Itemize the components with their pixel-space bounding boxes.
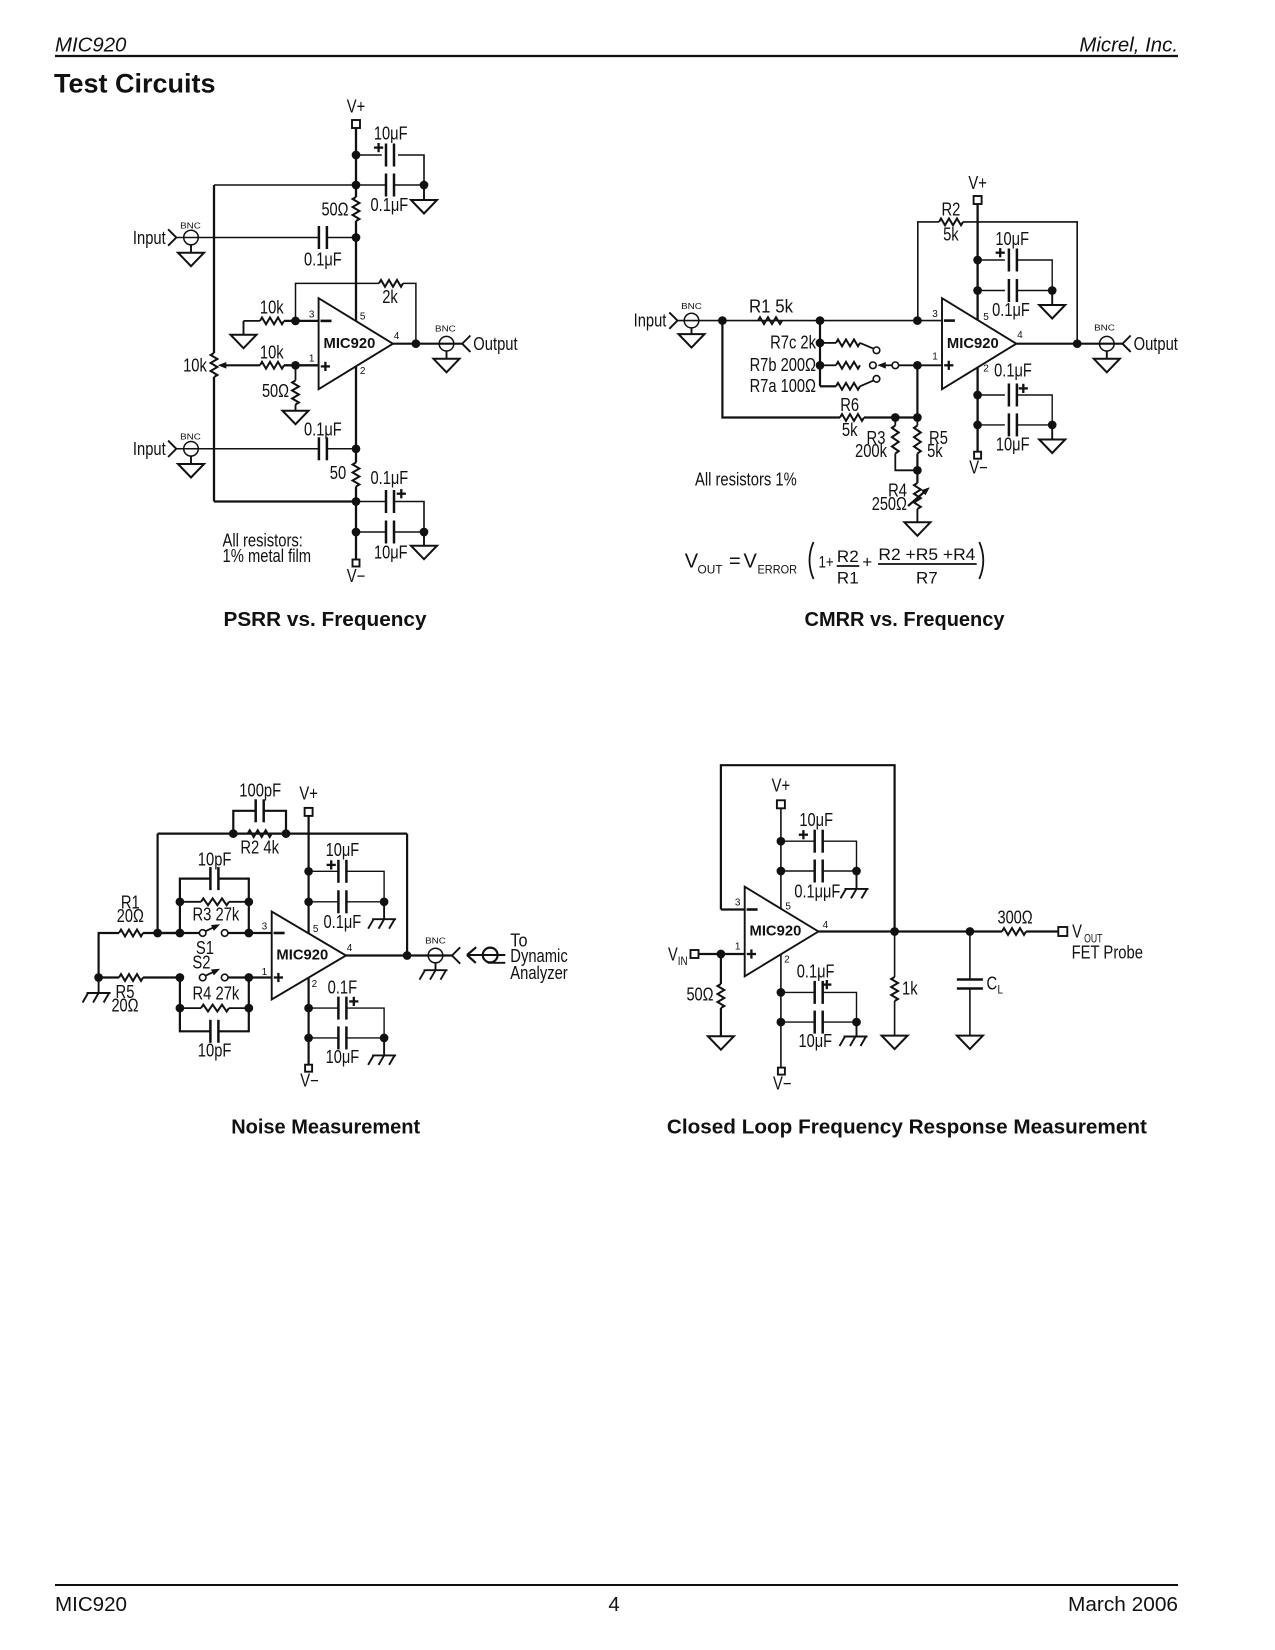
resistor 50 Ohm (V+ rail): [321, 197, 359, 221]
wire V+ rail: [976, 204, 978, 321]
V+ supply terminal: [347, 97, 366, 129]
capacitor 10uF (V- bypass): [996, 413, 1030, 454]
capacitor 10uF (V- bypass): [799, 1011, 833, 1052]
svg-text:C: C: [987, 974, 998, 994]
wire cap to ground node: [394, 184, 424, 186]
svg-text:All resistors 1%: All resistors 1%: [695, 469, 797, 489]
V- supply terminal: [773, 1068, 792, 1094]
svg-text:0.1F: 0.1F: [328, 977, 358, 997]
svg-text:2: 2: [360, 366, 366, 377]
junction: [304, 1034, 313, 1043]
resistor R3 27k: [176, 897, 254, 933]
svg-text:1% metal film: 1% metal film: [223, 546, 312, 566]
capacitor 10uF (V+ bypass, polarized): [799, 810, 833, 853]
svg-text:BNC: BNC: [180, 220, 201, 230]
svg-text:4: 4: [1017, 330, 1023, 341]
svg-text:BNC: BNC: [681, 301, 702, 311]
svg-text:2k: 2k: [382, 287, 398, 307]
wire feedback up: [296, 283, 380, 321]
junction: [352, 444, 361, 453]
junction: [176, 929, 185, 938]
wire output: [346, 954, 452, 956]
svg-text:MIC920: MIC920: [276, 947, 328, 964]
svg-text:4: 4: [823, 920, 829, 931]
junction: [380, 897, 389, 906]
wire: [284, 364, 319, 366]
wire: [346, 901, 384, 903]
svg-text:R1: R1: [837, 568, 859, 587]
svg-text:5: 5: [360, 312, 366, 323]
resistor R7c 2k: [770, 332, 860, 352]
junction: [891, 413, 900, 422]
capacitor 0.1uF (V+ bypass): [324, 890, 362, 932]
wire: [1017, 424, 1052, 426]
resistor R1 20 Ohm: [117, 892, 144, 936]
op-amp U4 MIC920 (closed loop): [745, 887, 819, 977]
junction: [244, 973, 253, 982]
svg-text:5k: 5k: [842, 420, 858, 440]
switch S1: [196, 924, 228, 958]
svg-text:4: 4: [394, 331, 400, 342]
svg-text:OUT: OUT: [698, 563, 724, 577]
junction: [913, 316, 922, 325]
wire: [1017, 395, 1052, 425]
V- supply terminal: [347, 560, 366, 587]
svg-text:Input: Input: [634, 311, 667, 331]
svg-text:10pF: 10pF: [198, 1040, 232, 1060]
junction: [94, 973, 103, 982]
svg-text:10pF: 10pF: [198, 850, 232, 870]
wire: [228, 976, 272, 978]
svg-text:1k: 1k: [902, 979, 918, 999]
capacitor CL (load): [957, 932, 1003, 997]
wire: [284, 320, 319, 322]
svg-text:3: 3: [309, 310, 315, 321]
svg-text:1+: 1+: [819, 552, 834, 571]
wire pin2 rail: [780, 954, 782, 1067]
svg-text:2: 2: [312, 979, 318, 990]
junction: [282, 829, 291, 838]
junction: [304, 867, 313, 876]
ground (pin3 10k): [231, 321, 257, 348]
wire: [823, 1021, 857, 1023]
junction: [1048, 286, 1057, 295]
resistor R5 5k: [914, 418, 948, 462]
wire output: [818, 930, 1002, 932]
wire rail to pin5: [355, 221, 357, 321]
wire 0.1uF row: [978, 290, 1005, 292]
ground: [1039, 425, 1065, 453]
junction: [352, 181, 361, 190]
wire pin2 rail: [355, 366, 357, 449]
svg-text:Output: Output: [473, 334, 517, 354]
junction: [777, 1018, 786, 1027]
junction: [153, 929, 162, 938]
svg-text:R2 4k: R2 4k: [240, 837, 279, 857]
wire: [823, 841, 857, 871]
wire rail: [355, 502, 357, 560]
ground: [841, 871, 869, 898]
svg-text:100pF: 100pF: [239, 780, 281, 800]
junction: [352, 528, 361, 537]
switch wiper arrow: [877, 362, 898, 369]
junction: [890, 927, 899, 936]
svg-text:5k: 5k: [943, 224, 959, 244]
wire output: [1016, 343, 1122, 345]
BNC connector input 1: [168, 220, 201, 245]
V+ supply terminal: [772, 776, 791, 809]
svg-text:1: 1: [735, 942, 741, 953]
junction: [852, 1018, 861, 1027]
wire feedback top: [158, 832, 408, 834]
svg-text:R1 5k: R1 5k: [749, 297, 794, 317]
capacitor 10uF (V- bypass): [326, 1026, 360, 1067]
svg-text:10μF: 10μF: [326, 840, 360, 860]
svg-text:V+: V+: [968, 173, 987, 193]
wire cap to rail: [327, 237, 356, 239]
svg-text:MIC920: MIC920: [750, 923, 802, 940]
svg-text:5: 5: [785, 901, 791, 912]
wire wiper to pin1: [899, 364, 942, 366]
op-amp U2 MIC920 (CMRR): [942, 298, 1016, 389]
svg-text:R7: R7: [916, 568, 938, 587]
wire: [346, 871, 384, 902]
ground: [1039, 291, 1065, 319]
svg-text:V+: V+: [347, 97, 366, 117]
wire 10uF row: [781, 840, 815, 842]
svg-text:MIC920: MIC920: [55, 1594, 127, 1616]
junction: [352, 233, 361, 242]
junction: [973, 256, 982, 265]
svg-text:V+: V+: [772, 776, 791, 796]
svg-text:50: 50: [330, 463, 346, 483]
wire: [158, 932, 200, 934]
svg-text:20Ω: 20Ω: [117, 906, 144, 926]
svg-text:0.1μF: 0.1μF: [324, 912, 362, 932]
svg-text:V−: V−: [773, 1074, 792, 1094]
wire 10uF row: [781, 1021, 815, 1023]
svg-text:10μF: 10μF: [326, 1047, 360, 1067]
svg-text:R7a 100Ω: R7a 100Ω: [750, 376, 816, 396]
svg-text:R2: R2: [941, 199, 960, 219]
wire: [823, 870, 857, 872]
wire to 0.1uF: [356, 184, 386, 186]
svg-text:3: 3: [735, 898, 741, 909]
potentiometer 10k: [183, 353, 217, 377]
resistor 2k (feedback): [379, 280, 403, 307]
junction: [1048, 421, 1057, 430]
wire: [355, 487, 357, 502]
wire left rail top segment: [214, 184, 356, 186]
svg-text:2: 2: [983, 363, 989, 374]
wire V+ rail: [780, 808, 782, 909]
svg-text:5: 5: [983, 312, 989, 323]
wire 0.1uF row: [309, 901, 339, 903]
junction: [304, 1004, 313, 1013]
svg-text:0.1μF: 0.1μF: [797, 961, 835, 981]
resistor 50 Ohm (pin1 to gnd): [262, 365, 299, 404]
svg-text:Closed Loop Frequency Response: Closed Loop Frequency Response Measureme…: [667, 1116, 1147, 1138]
capacitor 0.1uF (V+ bypass): [371, 174, 409, 216]
svg-text:50Ω: 50Ω: [321, 200, 348, 220]
wire 10uF row: [356, 154, 382, 156]
svg-text:0.1μF: 0.1μF: [304, 419, 342, 439]
svg-text:3: 3: [932, 309, 938, 320]
junction: [718, 316, 727, 325]
ground: [957, 988, 983, 1049]
wire pin2 rail: [308, 978, 310, 1065]
probe cable to analyzer: [467, 947, 505, 963]
wire feedback left down: [157, 834, 159, 933]
capacitor 0.1F (V- bypass, polarized): [328, 977, 359, 1019]
wire: [394, 531, 424, 533]
svg-text:4: 4: [608, 1594, 619, 1616]
junction: [352, 497, 361, 506]
wire 10uF row: [978, 259, 1005, 261]
junction: [966, 927, 975, 936]
svg-text:CMRR vs. Frequency: CMRR vs. Frequency: [805, 609, 1006, 631]
resistor R2 4k (feedback): [240, 830, 279, 857]
wire output: [393, 343, 462, 345]
capacitor 10uF (V+ bypass, polarized): [326, 840, 360, 883]
svg-text:R4 27k: R4 27k: [193, 984, 241, 1004]
junction: [973, 286, 982, 295]
wire feedback to output: [963, 222, 1077, 344]
junction: [973, 421, 982, 430]
wire pin1 down: [916, 365, 918, 417]
svg-text:10μF: 10μF: [799, 1031, 833, 1051]
wire V+ rail upper: [355, 128, 357, 197]
wire: [864, 416, 917, 418]
svg-text:10μF: 10μF: [374, 542, 408, 562]
wire input down to R6: [722, 321, 840, 418]
svg-text:1: 1: [262, 967, 268, 978]
switch throw contact R7a: [860, 376, 880, 387]
wire feedback right down: [406, 834, 408, 956]
svg-text:0.1μF: 0.1μF: [304, 249, 342, 269]
svg-text:4: 4: [347, 943, 353, 954]
wire: [916, 454, 918, 484]
wire: [143, 976, 180, 978]
svg-text:Output: Output: [1134, 334, 1178, 354]
ground: [708, 1008, 734, 1050]
wire Vin: [699, 953, 745, 955]
svg-text:10μF: 10μF: [799, 810, 833, 830]
wire pin3: [721, 908, 745, 910]
header rule: [55, 55, 1178, 57]
junction: [304, 897, 313, 906]
resistor 50 Ohm (input term): [686, 954, 724, 1008]
wire bottom-left return: [214, 500, 356, 502]
svg-text:10k: 10k: [260, 297, 285, 317]
svg-text:PSRR vs. Frequency: PSRR vs. Frequency: [224, 609, 428, 631]
junction: [816, 361, 825, 370]
svg-text:+: +: [862, 552, 872, 571]
ground: [411, 185, 437, 214]
svg-text:50Ω: 50Ω: [262, 381, 289, 401]
svg-text:MIC920: MIC920: [324, 335, 376, 352]
resistor R5 20 Ohm: [111, 974, 143, 1016]
capacitor 10uF (V+ bypass, polarized): [995, 229, 1029, 271]
capacitor 0.1uF (V- bypass, polarized): [371, 468, 409, 513]
wire: [1017, 290, 1052, 292]
svg-text:FET Probe: FET Probe: [1072, 942, 1143, 962]
wire: [244, 320, 261, 322]
svg-text:0.1μF: 0.1μF: [371, 468, 409, 488]
wire cap to corner: [398, 155, 424, 185]
wire R3 bottom elbow: [895, 454, 917, 471]
svg-text:R2: R2: [837, 547, 859, 566]
junction: [913, 413, 922, 422]
svg-text:3: 3: [262, 922, 268, 933]
wire left rail lower: [213, 377, 215, 502]
ground: [283, 405, 309, 425]
switch pole contact R7b: [870, 362, 877, 369]
ground: [882, 1001, 908, 1049]
junction: [412, 339, 421, 348]
svg-text:1: 1: [932, 351, 938, 362]
junction: [717, 950, 726, 959]
svg-text:10μF: 10μF: [995, 229, 1029, 249]
svg-text:Micrel, Inc.: Micrel, Inc.: [1079, 34, 1178, 56]
capacitor 0.1uF (input 1 coupling): [304, 226, 342, 269]
resistor R2 5k (feedback): [918, 199, 963, 321]
resistor R7a 100 Ohm: [750, 376, 860, 396]
svg-text:MIC920: MIC920: [55, 34, 127, 56]
junction: [403, 951, 412, 960]
junction: [291, 361, 300, 370]
junction: [352, 151, 361, 160]
junction: [229, 829, 238, 838]
capacitor 10uF (V- bypass): [374, 521, 408, 563]
svg-text:10μF: 10μF: [996, 434, 1030, 454]
svg-text:10μF: 10μF: [374, 124, 408, 144]
BNC connector output: [425, 935, 460, 963]
junction: [291, 317, 300, 326]
switch throw contact R7c: [860, 343, 880, 354]
capacitor 0.1uF (V- bypass, polarized): [797, 961, 835, 1004]
BNC connector output: [435, 324, 470, 352]
wire R1 left elbow: [99, 933, 119, 978]
svg-text:V: V: [744, 550, 758, 572]
svg-text:Noise Measurement: Noise Measurement: [231, 1116, 420, 1138]
wire left rail: [213, 185, 215, 353]
svg-text:BNC: BNC: [180, 432, 201, 442]
svg-text:0.1μμF: 0.1μμF: [794, 881, 840, 901]
ground: [83, 978, 111, 1003]
wire: [394, 502, 424, 533]
resistor 1k (load): [891, 932, 918, 1002]
wire input 2: [176, 448, 318, 450]
wire 10uF row: [309, 1037, 339, 1039]
Vout terminal: [1058, 927, 1067, 936]
resistor R3 200k: [855, 418, 899, 462]
svg-text:10k: 10k: [260, 342, 285, 362]
wire feedback loop: [721, 765, 895, 931]
op-amp U1 MIC920 (PSRR): [319, 298, 393, 389]
footer rule: [55, 1584, 1178, 1586]
ground BNC 1: [178, 245, 204, 266]
wiper arrow: [218, 362, 260, 369]
capacitor 0.1uuF (V+ bypass): [794, 860, 840, 902]
ground BNC: [420, 963, 448, 980]
svg-text:March 2006: March 2006: [1068, 1594, 1178, 1616]
svg-text:BNC: BNC: [1094, 323, 1115, 333]
junction: [816, 339, 825, 348]
svg-text:5k: 5k: [927, 441, 943, 461]
V- supply terminal: [969, 452, 988, 478]
svg-text:=: =: [729, 550, 741, 572]
switch S2: [192, 952, 228, 981]
capacitor 10pF (under R4): [180, 1008, 249, 1060]
svg-text:Input: Input: [133, 228, 166, 248]
wire: [1026, 930, 1058, 932]
wire 0.1uuF row: [781, 870, 815, 872]
capacitor 10uF (V+ bypass, polarized): [374, 124, 408, 167]
wire R7 bank vertical: [819, 321, 821, 387]
wire V+ rail: [308, 816, 310, 933]
resistor R6 5k: [840, 395, 864, 440]
junction: [420, 528, 429, 537]
wire input: [678, 320, 943, 322]
junction: [973, 391, 982, 400]
svg-text:250Ω: 250Ω: [872, 494, 907, 514]
svg-text:V−: V−: [300, 1071, 319, 1091]
svg-text:R3 27k: R3 27k: [193, 904, 241, 924]
svg-text:L: L: [998, 983, 1004, 997]
svg-text:Input: Input: [133, 439, 166, 459]
wire: [327, 448, 356, 450]
resistor 10k (non-inverting input): [260, 342, 285, 368]
svg-text:S2: S2: [192, 952, 210, 972]
svg-text:300Ω: 300Ω: [997, 907, 1032, 927]
wire: [99, 976, 119, 978]
capacitor 0.1uF (input 2 coupling): [304, 419, 342, 460]
Vout label: [1072, 922, 1143, 963]
V+ supply terminal: [968, 173, 987, 204]
ground: [368, 902, 396, 929]
capacitor 0.1uF (V+ bypass): [992, 279, 1030, 320]
wire: [1017, 260, 1052, 291]
junction: [777, 988, 786, 997]
svg-text:R6: R6: [840, 395, 859, 415]
svg-text:MIC920: MIC920: [947, 335, 999, 352]
resistor 10k (inverting input): [260, 297, 285, 324]
svg-text:2: 2: [784, 954, 790, 965]
resistor R4 27k: [176, 978, 254, 1013]
svg-text:R7c 2k: R7c 2k: [770, 332, 817, 352]
wire 0.1uF row: [978, 394, 1005, 396]
junction: [816, 316, 825, 325]
wire: [823, 992, 857, 1022]
junction: [777, 837, 786, 846]
trimmer R4 250 Ohm: [872, 481, 930, 515]
wire 0.1uF row: [781, 991, 815, 993]
ground BNC output: [434, 351, 460, 372]
junction: [777, 867, 786, 876]
wire: [346, 1037, 384, 1039]
V- supply terminal: [300, 1065, 319, 1091]
svg-text:V−: V−: [347, 566, 366, 586]
capacitor 100pF (feedback): [233, 780, 286, 833]
svg-text:50Ω: 50Ω: [686, 985, 713, 1005]
svg-text:Test Circuits: Test Circuits: [54, 69, 216, 99]
wire feedback to output: [403, 283, 416, 343]
svg-text:5: 5: [313, 924, 319, 935]
junction: [913, 361, 922, 370]
svg-text:V−: V−: [969, 458, 988, 478]
svg-text:V: V: [1072, 922, 1082, 942]
